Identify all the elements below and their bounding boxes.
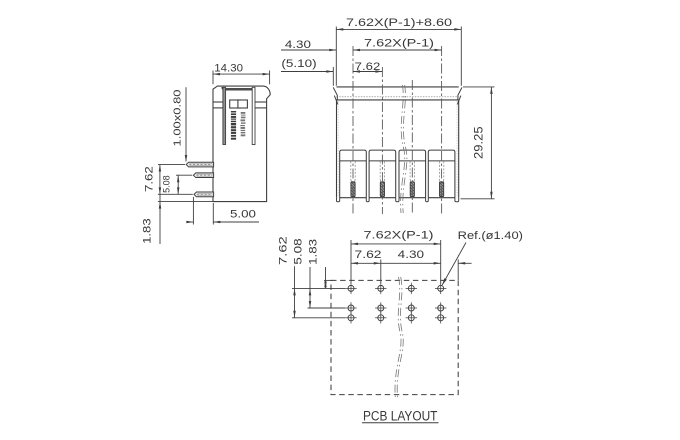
svg-text:5.00: 5.00 [230,209,256,221]
side view: collar lines left [213,101,223,103]
dim 29.25 (front height) [463,86,495,88]
front view: slot 2 floor line [369,197,396,199]
pcb: hole row 2 col 1 [345,302,356,313]
pcb: hole row 1 col 3 [406,283,417,294]
dim 1.00x0.80 (pin cross-section leader) [185,87,187,161]
svg-text:1.83: 1.83 [307,239,319,265]
front view: rib 5 (protruding foot) [455,198,459,202]
svg-text:7.62: 7.62 [144,166,156,192]
side view: latch hook tick at rail top [222,87,225,92]
front view: slot 3 cavity [399,150,426,198]
svg-text:7.62X(P-1): 7.62X(P-1) [364,38,434,50]
dim 7.62 (front pitch) [353,71,382,73]
side view: molded part-number text column 2 [240,112,245,136]
front view: rib 4 (protruding foot) [426,198,429,202]
side view: release button (two overlapping boxes) [230,100,241,108]
front view: slot 4 cavity [428,150,455,198]
side view: pin 1 (top solder tail) [186,162,213,167]
front view: break line (long-break squiggle) [401,85,405,213]
dim 7.62X(P-1) (front pin span) [353,49,442,51]
dim 1.83 (pin3 to body bottom) [158,201,213,203]
front view: slot 3 shelf line [399,160,426,162]
front view: collar top edge [337,86,459,88]
front view: slot 4 shelf line [428,160,455,162]
pcb: hole row 1 col 4 [435,283,446,294]
side view: pin 2 (middle solder tail) [193,173,213,178]
pcb: hole row 3 col 2 [375,312,386,323]
svg-text:Ref.(ø1.40): Ref.(ø1.40) [458,230,523,242]
dim 7.62 (side view pin1-pin3) [158,164,185,166]
front view: rib 1 (protruding foot) [337,198,340,202]
pcb: dashed board outline [331,280,458,394]
pcb: hole row 2 col 2 [375,302,386,313]
pcb dim 7.62 vertical (row1-row3) [292,287,345,289]
pcb: hole row 3 col 1 [345,312,356,323]
dim 7.62X(P-1)+8.60 (front overall width) [335,27,337,86]
pcb layout caption underline [362,422,439,424]
svg-text:29.25: 29.25 [474,126,486,159]
front view: left mounting hook [333,87,337,100]
pcb: hole row 2 col 4 [435,302,446,313]
front view: collar inner line [337,96,459,98]
svg-text:7.62X(P-1)+8.60: 7.62X(P-1)+8.60 [346,17,452,29]
front view: collar bottom edge [337,99,459,101]
front view: body left edge [336,100,338,198]
pcb dim 1.83 vertical (edge to row1) [324,279,333,281]
front view: slot 2 contact pin [379,161,381,179]
dim (5.10) (flange tip to first pin) [332,67,334,86]
svg-text:1.00x0.80: 1.00x0.80 [172,89,184,146]
svg-text:4.30: 4.30 [398,249,424,261]
front view: slot 4 floor line [428,197,455,199]
svg-text:1.83: 1.83 [142,218,154,244]
front view: slot 1 cavity [340,150,367,198]
pcb: hole row 2 col 3 [406,302,417,313]
dim 14.30 (side view width) [212,71,214,85]
pcb dim 7.62X(P-1) (hole span) [350,240,352,284]
svg-text:5.08: 5.08 [292,238,304,264]
pcb dim 7.62 (hole pitch) [380,260,382,284]
svg-text:7.62: 7.62 [355,61,381,73]
side view: pin 3 (bottom solder tail) [194,192,214,197]
front view: slot 1 floor line [340,197,367,199]
front view: centerline 3 [411,80,413,214]
svg-text:7.62X(P-1): 7.62X(P-1) [364,230,434,242]
svg-text:5.08: 5.08 [162,175,172,193]
svg-text:4.30: 4.30 [285,39,311,51]
pcb: hole row 1 col 2 [375,283,386,294]
front view: centerline 2 [381,67,383,214]
side view: molded part-number text column 1 [231,111,236,140]
svg-text:(5.10): (5.10) [281,58,316,70]
front view: rib 2 (protruding foot) [366,198,369,202]
front view: slot 4 contact pin [438,161,440,179]
side view: collar lines right [255,101,267,103]
svg-text:7.62: 7.62 [277,236,289,265]
side view: dark latch bar on top [226,88,252,91]
front view: centerline 4 [441,46,443,214]
svg-text:7.62: 7.62 [355,249,382,261]
pcb: break line (long-break squiggle) [395,277,401,399]
front view: slot 1 contact pin [350,161,352,179]
front view: body right edge [458,100,460,198]
side view: connector body outline [213,86,270,202]
pcb: hole row 1 col 1 [345,283,356,294]
front view: slot 3 contact pin [409,161,411,179]
dim 5.00 (pin protrusion) [192,197,194,225]
pcb: hole row 3 col 4 [435,312,446,323]
front view: centerline 1 [352,46,354,214]
svg-text:14.30: 14.30 [214,63,243,75]
front view: slot 3 floor line [399,197,426,199]
side view: left guide rail (gray) [223,87,226,144]
front view: slot 2 cavity [369,150,396,198]
front view: rib 3 (protruding foot) [396,198,399,202]
pcb leader Ref.(dia 1.40) [442,243,466,286]
front view: slot 2 shelf line [369,160,396,162]
dim 4.30 (edge to first pin) [281,49,336,51]
front view: slot 1 shelf line [340,160,367,162]
pcb dim 5.08 vertical (row1-row2) [308,307,346,309]
pcb: hole row 3 col 3 [406,312,417,323]
front view: right mounting hook [458,87,462,100]
side view: right guide rail [252,87,255,144]
dim 5.08 (side view pin2-pin3) [176,174,192,176]
svg-text:PCB LAYOUT: PCB LAYOUT [363,408,438,423]
pcb dim 4.30 (last hole to board edge) [457,260,459,281]
